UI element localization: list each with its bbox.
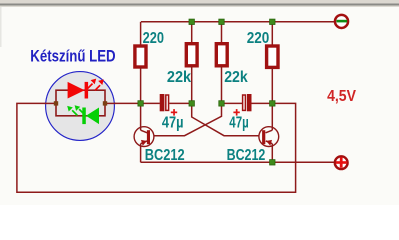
junction rail C column (219, 19, 224, 24)
svg-text:Kétszínű LED: Kétszínű LED (30, 47, 115, 65)
wire node D right and down and bottom rail and left side up to LED (17, 103, 296, 192)
wire node C to Q1 base (cross coupling) (154, 105, 222, 136)
battery terminal plus (335, 156, 348, 169)
window top edge bar (0, 0, 399, 47)
junction rail B column (189, 19, 194, 24)
wire node B to Q2 base (cross coupling) (192, 105, 259, 136)
capacitor C2 47u (243, 94, 252, 111)
wire node C to C2 (222, 102, 243, 104)
wire rail stub to R2 (191, 22, 193, 43)
transistor Q2 BC212 (259, 103, 279, 162)
wire R3 bottom to node C (221, 66, 223, 104)
svg-text:220: 220 (143, 30, 164, 47)
wire R4 bottom to node D (271, 67, 273, 103)
wire R1 bottom to node A (140, 67, 142, 103)
resistor R3 (216, 44, 227, 66)
LED junction right (103, 101, 107, 105)
junction node D (270, 101, 275, 106)
capacitor C1 47u (160, 94, 169, 111)
resistor R1 (135, 46, 146, 67)
wire LED right lead to node A to C1 (106, 102, 160, 104)
svg-text:47µ: 47µ (162, 115, 184, 132)
svg-text:4,5V: 4,5V (327, 88, 356, 105)
svg-text:220: 220 (247, 30, 270, 47)
transistor Q1 BC212 (134, 103, 154, 162)
resistor R4 (267, 46, 278, 67)
label C1 plus (171, 109, 177, 116)
svg-text:22k: 22k (167, 69, 191, 86)
wire rail stub to R3 (221, 22, 223, 43)
label C2 plus (233, 109, 239, 116)
svg-text:47µ: 47µ (229, 115, 248, 132)
wire LED right lead inside body (105, 102, 116, 104)
junction rail D column (270, 19, 275, 24)
wire rail stub to R4 (271, 22, 273, 45)
bi-color LED body circle (46, 72, 115, 141)
battery terminal minus (335, 15, 348, 28)
LED D2 green (points left) (67, 105, 99, 124)
wire C2 to node D (252, 102, 273, 104)
junction emitter rail (270, 160, 275, 165)
wire rail stub to R1 (140, 22, 142, 45)
LED junction left (54, 101, 58, 105)
LED D1 red (points right) (68, 79, 104, 99)
wire top rail (141, 21, 334, 23)
resistor R2 (186, 44, 197, 66)
wire LED left lead inside body (45, 102, 57, 104)
junction node B (189, 101, 194, 106)
wire R2 bottom to node B (191, 66, 193, 104)
wire emitter rail to plus terminal (141, 161, 334, 163)
LED branch rectangle (56, 90, 105, 116)
wire C1 to node B (169, 102, 191, 104)
junction node C (219, 101, 224, 106)
junction node A (138, 101, 143, 106)
svg-text:22k: 22k (224, 69, 248, 86)
